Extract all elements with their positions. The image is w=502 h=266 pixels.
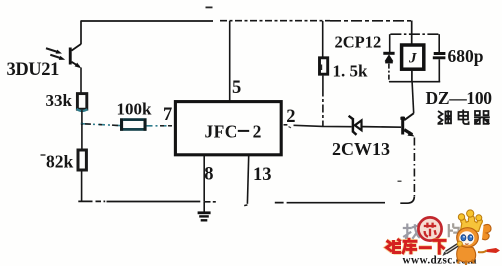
transistor Q1 (400, 113, 414, 136)
capacitor C1 680p plates (434, 52, 446, 55)
wire top rail solid (81, 20, 213, 22)
resistor R4 1.5k (320, 58, 328, 74)
svg-text:100k: 100k (117, 100, 153, 119)
relay loop top edge (390, 33, 439, 35)
svg-text:DZ—100: DZ—100 (426, 88, 493, 108)
wire bottom rail right (275, 202, 385, 204)
wire 82k to bottom rail (81, 171, 83, 201)
speck left of emitter wire (398, 181, 402, 183)
svg-text:13: 13 (253, 165, 272, 185)
wire emitter to 33k (80, 68, 82, 95)
svg-text:8: 8 (204, 165, 213, 185)
relay loop right edge upper (438, 34, 440, 52)
relay loop bottom edge (389, 81, 440, 83)
watermark red circle 芯 (418, 217, 441, 240)
wire junction to 82k (81, 124, 83, 150)
watermark 维库一下 (hand-drawn red) (387, 238, 447, 255)
diode D1 2CP12 (383, 53, 394, 63)
watermark stamp 找芯片 (403, 223, 420, 238)
wire pin 5 (229, 21, 231, 101)
wire pin 8 (203, 156, 205, 202)
svg-text:7: 7 (163, 105, 172, 125)
resistor R3 82k (78, 150, 86, 170)
svg-text:2CW13: 2CW13 (332, 139, 390, 159)
relay coil J box (402, 45, 424, 69)
wire pin 2 to zener (dashed then solid) (284, 124, 288, 126)
wire pin 13 (247, 156, 248, 204)
ground (198, 202, 211, 221)
svg-text:680p: 680p (448, 46, 484, 66)
wire 1.5k down to pin2 wire (322, 76, 324, 89)
svg-text:JFC: JFC (205, 122, 238, 142)
svg-text:2: 2 (253, 122, 262, 142)
watermark mascot (443, 210, 501, 265)
svg-text:2CP12: 2CP12 (335, 33, 382, 52)
wire 33k to junction (81, 110, 83, 124)
relay loop left edge lower (dash) (388, 64, 390, 82)
wire bottom rail left (78, 200, 200, 202)
svg-text:J: J (408, 51, 417, 67)
resistor R2 100k (121, 119, 145, 131)
IC U1 JFC-2 (175, 102, 281, 155)
wire emitter down (dash-dot) (413, 138, 415, 198)
resistor R1 33k (77, 94, 86, 110)
svg-text:33k: 33k (46, 91, 73, 110)
svg-text:82k: 82k (46, 152, 74, 172)
wire left rail upper (80, 20, 82, 44)
phototransistor V 3DU21 (46, 44, 81, 68)
wire relay top feed (411, 21, 413, 45)
relay loop right edge lower (438, 59, 440, 81)
relay loop left edge upper (389, 34, 391, 52)
svg-text:2: 2 (286, 107, 295, 127)
wire collector up to relay (412, 82, 414, 114)
label 继电器 (hand-drawn strokes) (438, 110, 490, 125)
watermark 维库一下 glow (387, 238, 447, 255)
zener diode 2CW13 (349, 116, 401, 135)
wire junction to 100k (teal dashes) (83, 124, 121, 126)
wire bottom rail middle dashes (205, 201, 216, 203)
node junction A (81, 123, 83, 125)
svg-text:3DU21: 3DU21 (7, 60, 60, 80)
svg-text:5: 5 (232, 78, 241, 98)
wire 1.5k branch from top rail (322, 21, 324, 57)
wire top rail dashed (220, 20, 330, 22)
svg-text:1. 5k: 1. 5k (333, 62, 369, 81)
wire bottom rail corner to emitter (400, 197, 414, 203)
speck left of 82k (41, 154, 46, 156)
wire 100k to pin7 (147, 125, 176, 127)
speck above top wire (206, 7, 213, 9)
wire J box bottom to loop bottom (411, 71, 413, 82)
